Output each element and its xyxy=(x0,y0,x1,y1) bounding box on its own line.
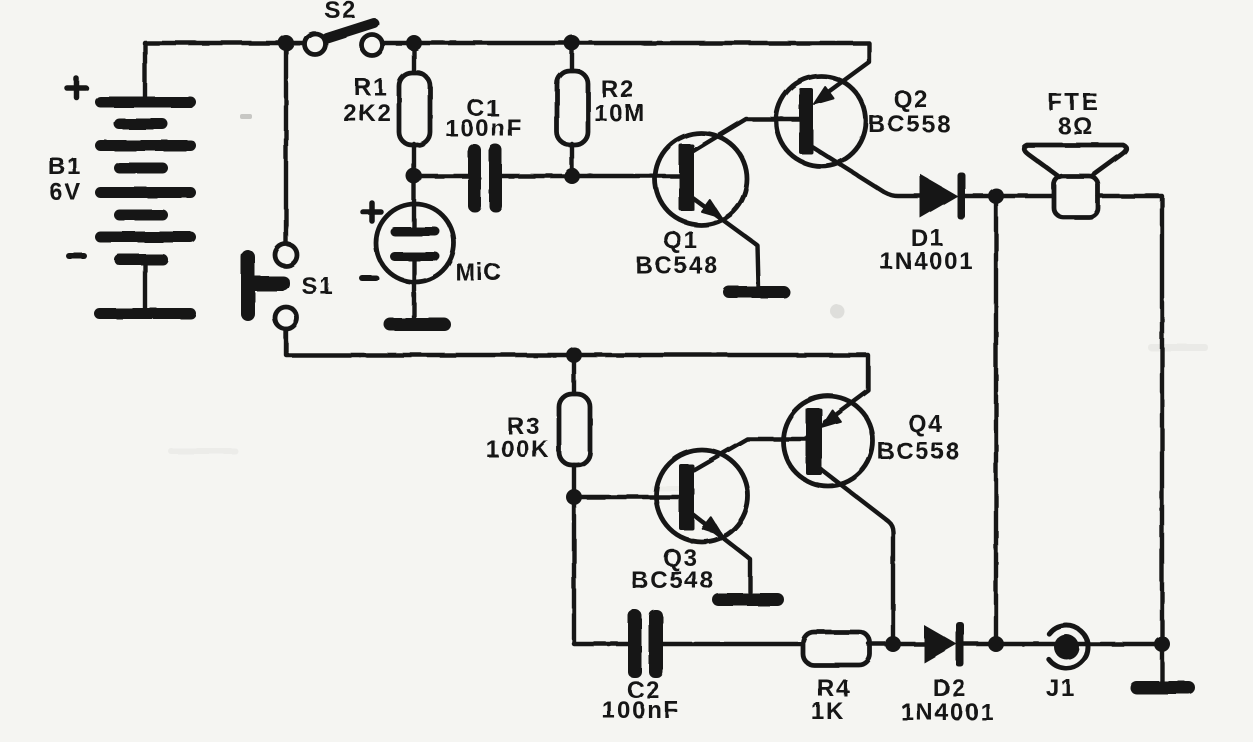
transistor Q2 xyxy=(776,76,920,196)
svg-text:MiC: MiC xyxy=(455,259,502,286)
wire R2 top stub xyxy=(570,43,574,74)
junction node R2 top xyxy=(564,35,580,51)
junction node R1 top xyxy=(406,35,422,51)
ground (Q1 emitter) xyxy=(723,286,790,298)
wire battery positive up to top rail and to S2 xyxy=(145,43,305,100)
wire R1 bottom stub xyxy=(412,144,416,176)
junction node bottom-right xyxy=(1154,636,1170,652)
svg-text:6V: 6V xyxy=(50,179,83,206)
wire R4 to D2 xyxy=(869,642,924,646)
ground (bottom right) xyxy=(1130,681,1195,694)
speaker FTE xyxy=(1024,145,1127,217)
transistor Q4 xyxy=(783,396,893,644)
wire node to MiC top plate xyxy=(412,176,416,232)
svg-text:BC548: BC548 xyxy=(635,252,719,279)
svg-text:8Ω: 8Ω xyxy=(1058,113,1094,140)
microphone MiC xyxy=(376,204,454,282)
label mic plus xyxy=(363,203,381,221)
svg-text:R1: R1 xyxy=(354,74,388,101)
svg-text:S1: S1 xyxy=(302,273,335,300)
svg-text:B1: B1 xyxy=(48,153,82,180)
label battery minus xyxy=(69,253,84,259)
svg-text:Q1: Q1 xyxy=(663,227,699,254)
capacitor C1 xyxy=(468,144,502,212)
switch S1 pushbutton xyxy=(241,244,297,329)
wire D2 cathode to right bus bottom xyxy=(964,642,1162,646)
wire S1 bottom to second rail to Q4 emitter corner xyxy=(286,329,868,422)
svg-text:BC558: BC558 xyxy=(868,111,952,138)
resistor R3 xyxy=(559,394,590,465)
svg-text:FTE: FTE xyxy=(1048,89,1101,116)
svg-text:Q2: Q2 xyxy=(893,86,929,113)
svg-text:1N4001: 1N4001 xyxy=(880,248,975,275)
svg-text:BC548: BC548 xyxy=(631,567,715,594)
wire MiC bottom to ground xyxy=(412,259,416,318)
switch S2 xyxy=(305,23,383,56)
svg-text:1K: 1K xyxy=(811,698,845,725)
svg-text:J1: J1 xyxy=(1046,675,1076,702)
resistor R1 xyxy=(399,73,430,145)
wire C2 right to R4 xyxy=(662,642,805,646)
svg-text:100K: 100K xyxy=(486,436,551,463)
wire Q3 base xyxy=(574,495,679,499)
diode D2 xyxy=(924,622,964,667)
svg-text:10M: 10M xyxy=(594,100,646,127)
transistor Q3 xyxy=(656,439,806,592)
svg-text:100nF: 100nF xyxy=(445,115,523,142)
resistor R4 xyxy=(803,632,870,665)
label mic minus xyxy=(362,275,376,281)
svg-text:BC558: BC558 xyxy=(877,438,961,465)
svg-text:Q4: Q4 xyxy=(908,411,944,438)
ground (Q3 emitter) xyxy=(712,593,784,606)
wire R1 top stub xyxy=(412,43,416,76)
junction node D1/FTE xyxy=(988,188,1004,204)
ground (MiC) xyxy=(384,318,451,331)
wire node to C1 left plate xyxy=(414,174,470,178)
wire R3 bottom stub xyxy=(572,465,576,497)
svg-text:2K2: 2K2 xyxy=(343,100,392,127)
svg-text:100nF: 100nF xyxy=(602,697,680,724)
wire R3 node down to C2 xyxy=(574,497,631,644)
scan smudge artifacts xyxy=(168,114,1208,491)
wire R3 top stub xyxy=(572,355,576,396)
junction node top-left xyxy=(278,35,294,51)
battery B1 xyxy=(94,97,196,320)
capacitor C2 xyxy=(628,610,663,678)
wire top-left junction down to S1 xyxy=(284,43,288,244)
svg-text:D2: D2 xyxy=(933,675,967,702)
junction node bottom D2/J1 xyxy=(988,636,1004,652)
wire D1 junction down right bus left xyxy=(994,196,998,644)
diode D1 xyxy=(920,172,965,219)
svg-text:R2: R2 xyxy=(601,76,635,103)
wire FTE right to right bus xyxy=(1098,196,1162,681)
svg-text:1N4001: 1N4001 xyxy=(901,699,996,726)
junction node Q4 collector / bottom rail xyxy=(885,636,901,652)
wire top rail from S2 to Q2 emitter corner xyxy=(382,43,869,98)
junction node R3 top xyxy=(566,347,582,363)
wire R2 bottom stub xyxy=(570,144,574,176)
svg-text:S2: S2 xyxy=(325,0,358,24)
junction node R2 bottom xyxy=(564,168,580,184)
junction node R3 bottom / Q3 base xyxy=(566,489,582,505)
wire C1 right plate to Q1 base xyxy=(501,174,679,178)
jack J1 xyxy=(1049,626,1088,669)
label battery plus xyxy=(67,79,86,98)
junction node R1 bottom / mic / C1 xyxy=(406,168,422,184)
transistor Q1 xyxy=(655,119,799,286)
wire D1 cathode to FTE xyxy=(965,194,1054,198)
resistor R2 xyxy=(557,71,588,145)
